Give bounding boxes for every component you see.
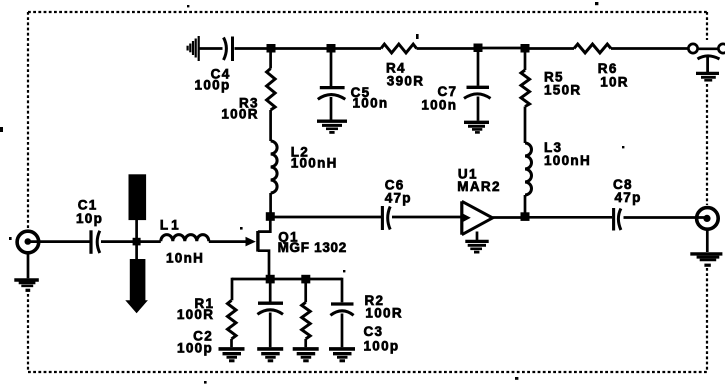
- wire R5 to L3: [524, 107, 527, 144]
- wire rail to C2: [269, 279, 272, 302]
- transistor Q1 drain lead: [258, 219, 270, 232]
- wire node to lower stub: [135, 245, 138, 260]
- node C7 junction: [474, 44, 483, 53]
- node R2 junction: [301, 275, 310, 284]
- svg-text:100R: 100R: [177, 307, 214, 322]
- resistor R5: [521, 70, 530, 106]
- capacitor C7 stem: [477, 48, 480, 86]
- scan speck: [0, 127, 3, 132]
- wire rail to C3: [341, 278, 344, 303]
- svg-text:100n: 100n: [421, 98, 457, 113]
- wire upper stub to node: [135, 219, 138, 240]
- resistor R2: [302, 302, 311, 339]
- wire source rail: [232, 278, 342, 281]
- node stub junction: [133, 238, 141, 246]
- svg-text:100p: 100p: [177, 341, 213, 356]
- scan speck: [204, 381, 207, 384]
- feedthrough capacitor plate: [698, 56, 720, 59]
- node R5 junction: [521, 44, 530, 53]
- node drain-feed junction: [267, 44, 276, 53]
- wire feedthrough stem: [706, 57, 709, 73]
- wire C8 to output connector: [624, 216, 706, 219]
- capacitor C4: [224, 37, 233, 62]
- wire input to C1: [29, 240, 90, 243]
- scan speck: [343, 270, 345, 272]
- wire R5 node to R6: [525, 47, 574, 50]
- svg-text:100p: 100p: [195, 78, 231, 93]
- op-amp U1 MAR2: [461, 201, 493, 234]
- capacitor C7: [464, 87, 491, 98]
- svg-text:C3: C3: [364, 324, 384, 339]
- wire rail to R2: [304, 279, 307, 302]
- wire C3 to ground: [341, 314, 344, 348]
- ground (C5): [317, 121, 347, 134]
- svg-text:10nH: 10nH: [166, 250, 204, 265]
- DC feed terminal (inner): [688, 44, 697, 53]
- svg-text:100p: 100p: [364, 339, 400, 354]
- ground (R2): [293, 349, 319, 362]
- wire output connector to ground: [706, 230, 709, 253]
- svg-text:100R: 100R: [365, 306, 402, 321]
- wire C6 to U1: [392, 216, 461, 219]
- svg-text:47p: 47p: [385, 191, 412, 206]
- capacitor C3: [330, 304, 353, 315]
- svg-text:47p: 47p: [615, 190, 642, 205]
- wire R2 to ground: [304, 339, 307, 347]
- inductor L1: [161, 235, 209, 242]
- svg-text:10R: 10R: [600, 74, 629, 89]
- ground (stub arrow): [125, 300, 148, 313]
- svg-text:100nH: 100nH: [544, 153, 591, 168]
- wire C2 to ground: [269, 313, 272, 348]
- wire node to C8: [525, 216, 612, 219]
- node C5 junction: [327, 44, 336, 53]
- scan speck: [240, 227, 243, 230]
- wire U1 to ground: [476, 232, 479, 241]
- ground (supply decoupling, left of C4): [188, 36, 199, 61]
- ground (input connector): [14, 280, 39, 292]
- wire between feed terminals: [698, 47, 719, 50]
- ground (C3): [329, 349, 355, 362]
- RF input connector: [17, 231, 39, 253]
- wire C4 to C5 node: [235, 47, 331, 50]
- svg-text:150R: 150R: [544, 82, 581, 97]
- transistor Q1 source lead: [258, 251, 269, 279]
- inductor L3: [525, 143, 532, 195]
- microstrip stub (upper): [129, 174, 147, 220]
- microstrip stub (lower): [130, 259, 146, 301]
- wire rail to R1: [231, 278, 234, 301]
- svg-text:100nH: 100nH: [291, 156, 338, 171]
- transistor Q1 gate arrow: [246, 237, 256, 247]
- svg-text:MAR2: MAR2: [457, 179, 500, 194]
- inductor L2: [271, 141, 278, 193]
- scan speck: [595, 2, 598, 5]
- wire L1 to gate: [209, 240, 247, 243]
- resistor R3: [267, 69, 276, 111]
- resistor R6: [574, 44, 611, 53]
- wire R6 to DC feed connector: [611, 47, 688, 50]
- ground (C2): [257, 349, 283, 362]
- scan speck: [9, 237, 12, 240]
- svg-text:L1: L1: [160, 217, 182, 232]
- scan speck: [515, 377, 518, 380]
- ground (C7): [464, 122, 489, 133]
- resistor R1: [228, 300, 237, 339]
- svg-text:10p: 10p: [76, 211, 103, 226]
- capacitor C6: [382, 206, 390, 230]
- wire node to R5: [524, 48, 527, 70]
- wire input connector to ground: [27, 253, 30, 278]
- wire C7 to ground: [477, 97, 480, 121]
- ground (U1): [465, 241, 488, 253]
- capacitor C5 stem: [330, 49, 333, 87]
- RF output connector: [697, 208, 719, 230]
- svg-text:MGF 1302: MGF 1302: [278, 240, 347, 255]
- wire U1 output to node: [493, 216, 525, 219]
- capacitor C5: [318, 88, 346, 100]
- wire C5 to ground: [330, 97, 333, 120]
- capacitor C2: [257, 303, 283, 314]
- wire R4 to C7 node: [417, 47, 479, 50]
- wire L3 to output node: [524, 195, 527, 214]
- scan speck: [622, 146, 624, 148]
- wire drain node to C6: [270, 216, 381, 219]
- resistor R4: [381, 44, 417, 53]
- wire R3 to L2: [269, 110, 272, 141]
- wire ground to C4: [200, 47, 223, 50]
- svg-text:100n: 100n: [353, 96, 389, 111]
- wire C1 to stub node: [101, 240, 161, 243]
- ground (output connector): [690, 254, 722, 267]
- node drain junction: [266, 212, 275, 221]
- DC feed terminal (outer): [718, 44, 725, 53]
- wire L2 to drain node: [269, 193, 272, 214]
- node source junction: [266, 275, 275, 284]
- wire node to R3: [269, 49, 272, 69]
- svg-text:100R: 100R: [221, 106, 258, 121]
- wire C7 node to R5 node: [478, 47, 525, 50]
- ground (R1): [219, 349, 245, 362]
- node output junction: [521, 212, 530, 221]
- capacitor C1: [91, 230, 100, 254]
- wire C5 node to R4: [331, 47, 381, 50]
- ground (feedthrough): [696, 73, 719, 80]
- scan speck: [416, 34, 419, 39]
- scan speck: [187, 5, 189, 7]
- svg-text:390R: 390R: [387, 74, 424, 89]
- capacitor C8: [614, 208, 621, 231]
- wire R1 to ground: [230, 339, 233, 347]
- transistor Q1 channel: [256, 231, 259, 252]
